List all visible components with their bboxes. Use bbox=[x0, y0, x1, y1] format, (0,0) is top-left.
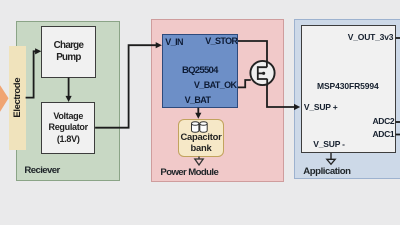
pin label V_BAT_OK bbox=[194, 81, 237, 90]
wire stub ADC1 bbox=[396, 134, 400, 136]
block: Application bbox=[294, 19, 400, 180]
electrode contact diamond bbox=[0, 82, 9, 115]
wire charge pump to voltage regulator bbox=[68, 78, 70, 97]
pin label V_STOR bbox=[205, 37, 237, 46]
label: Capacitor bank bbox=[178, 131, 225, 154]
label: Reciever bbox=[24, 166, 59, 176]
block: Voltage Regulator bbox=[41, 102, 95, 154]
label: Application bbox=[303, 167, 350, 177]
transistor Q1 (MOSFET in circle) bbox=[250, 61, 274, 86]
block: Power Module bbox=[151, 19, 285, 182]
label: MSP430FR5994 bbox=[317, 82, 379, 91]
arrowhead into capacitor bank bbox=[195, 113, 201, 119]
IC U2 MSP430FR5994 bbox=[301, 25, 396, 153]
label: Charge Pump bbox=[41, 40, 96, 63]
pin label V_OUT_3v3 bbox=[348, 33, 393, 42]
label: Power Module bbox=[160, 168, 218, 178]
wire Q1 source to MSP430 V_SUP+ bbox=[267, 86, 295, 108]
pin label V_BAT bbox=[185, 96, 211, 105]
block: Charge Pump bbox=[41, 26, 96, 78]
arrowhead into V_SUP+ bbox=[294, 104, 300, 110]
pin label ADC1 bbox=[373, 130, 395, 139]
label: Electrode bbox=[13, 46, 23, 149]
label: BQ25504 bbox=[162, 66, 238, 76]
arrowhead into V_IN bbox=[156, 42, 162, 48]
wire electrode to charge pump bbox=[26, 51, 37, 97]
capacitor icon (two cells) bbox=[192, 122, 208, 133]
wire voltage regulator to BQ25504 V_IN bbox=[95, 45, 156, 128]
ground arrow below V_SUP- bbox=[330, 153, 332, 159]
wire stub V_OUT_3v3 bbox=[396, 37, 400, 39]
label: Voltage Regulator (1.8V) bbox=[41, 111, 95, 146]
wire stub ADC2 bbox=[396, 121, 400, 123]
block: Receiver module bbox=[16, 21, 120, 181]
arrowhead into Voltage Regulator bbox=[66, 96, 72, 102]
IC U1 BQ25504 bbox=[162, 34, 238, 107]
electrode E1 bbox=[9, 46, 26, 150]
wire V_STOR to Q1 drain bbox=[238, 41, 267, 62]
wire V_BAT to capacitor bank bbox=[197, 108, 199, 114]
ground below capacitor bank bbox=[198, 157, 200, 160]
pin label V_SUP - bbox=[313, 140, 345, 149]
capacitor bank C1 bbox=[178, 119, 225, 157]
pin label V_IN bbox=[165, 38, 183, 47]
wire V_BAT_OK to Q1 gate bbox=[238, 80, 251, 87]
pin label ADC2 bbox=[373, 117, 395, 126]
pin label V_SUP + bbox=[304, 103, 338, 112]
arrowhead into Charge Pump bbox=[35, 48, 41, 54]
